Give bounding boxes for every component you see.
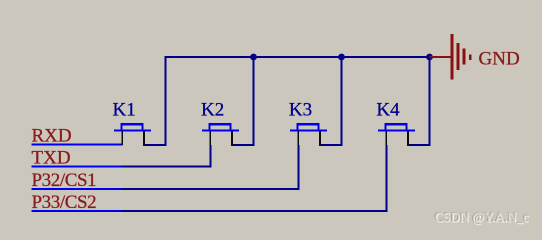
svg-text:RXD: RXD: [32, 126, 72, 147]
junction node at K3 riser and bus: [338, 54, 345, 61]
push button K3: [290, 123, 327, 145]
svg-text:K1: K1: [113, 100, 136, 121]
label GND: [479, 49, 520, 70]
svg-text:K3: K3: [289, 100, 312, 121]
net label P32/CS1: [32, 170, 97, 191]
push button K4: [378, 123, 415, 145]
wire: P32/CS1 net to K3 left pin: [32, 145, 300, 190]
watermark CSDN: [434, 209, 530, 226]
label K4: [376, 100, 400, 121]
push button K2: [202, 123, 239, 145]
svg-text:TXD: TXD: [32, 148, 71, 169]
ground symbol: [430, 34, 472, 79]
svg-text:K4: K4: [376, 100, 400, 121]
wire: K3 right pin to bus riser: [319, 56, 343, 146]
push button K1: [114, 123, 151, 145]
wire: RXD net to K1 left pin: [32, 144, 123, 146]
svg-text:CSDN @Y.A.N_c: CSDN @Y.A.N_c: [435, 210, 529, 225]
net label TXD: [32, 148, 71, 169]
wire: K2 right pin to bus riser: [231, 56, 255, 146]
label K3: [289, 100, 312, 121]
label K1: [113, 100, 136, 121]
net label P33/CS2: [32, 192, 97, 213]
wire: P33/CS2 net to K4 left pin: [32, 145, 388, 212]
wire: K1 right pin to bus riser: [143, 56, 167, 146]
wire: TXD net to K2 left pin: [32, 145, 212, 168]
svg-text:P32/CS1: P32/CS1: [32, 170, 97, 191]
net label RXD: [32, 126, 72, 147]
junction node at K2 riser and bus: [250, 54, 257, 61]
svg-text:P33/CS2: P33/CS2: [32, 192, 97, 213]
svg-text:GND: GND: [479, 49, 520, 70]
label K2: [201, 100, 224, 121]
svg-text:K2: K2: [201, 100, 224, 121]
wire: K4 right pin to bus riser: [407, 56, 431, 146]
junction node at K4 riser, bus and ground: [426, 54, 433, 61]
wire: top GND bus: [165, 56, 431, 58]
